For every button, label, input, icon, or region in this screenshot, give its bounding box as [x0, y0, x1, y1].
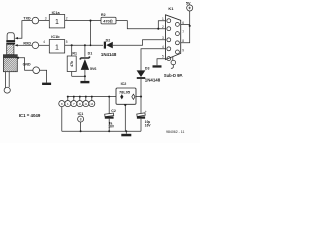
svg-text:5V6: 5V6: [90, 67, 96, 71]
wire stubs to IC1 pin circles: [68, 97, 92, 101]
svg-text:C2: C2: [111, 109, 116, 113]
svg-text:IC1b: IC1b: [51, 35, 60, 39]
svg-text:16V: 16V: [108, 125, 115, 129]
node junction reg right pin: [140, 96, 142, 98]
node rail junctions: [80, 130, 82, 132]
wire RXD to IC1b: [39, 44, 50, 46]
wire GND to jack sleeve: [18, 58, 33, 70]
svg-text:8: 8: [182, 39, 184, 43]
node RXD terminal: [32, 42, 39, 49]
K1 pin numbers left: [162, 17, 164, 59]
jack handle: [3, 55, 17, 72]
arrow to jack sleeve: [16, 57, 19, 59]
svg-text:D2: D2: [106, 39, 111, 43]
resistor R2: [101, 17, 116, 24]
wire junction down to RX line: [90, 21, 92, 46]
capacitor C2: [108, 97, 110, 114]
svg-text:5: 5: [162, 55, 164, 59]
wire K1 pin1 tie to pin2: [158, 21, 165, 29]
jack sleeve: [7, 44, 14, 54]
svg-text:1: 1: [67, 102, 69, 106]
node junction D1 top: [84, 44, 86, 46]
svg-text:3: 3: [162, 36, 164, 40]
wire TXD to IC1a: [39, 20, 50, 22]
capacitor C3: [140, 97, 142, 114]
svg-text:9: 9: [79, 102, 81, 106]
jack plug tip: [7, 33, 14, 40]
jack ring band 2: [6, 43, 15, 45]
wire R1 bottom to D1 bottom: [72, 75, 85, 77]
connector K1 Sub-D body: [166, 15, 181, 60]
jack bail wire: [6, 72, 10, 89]
svg-text:5: 5: [66, 40, 68, 44]
K1 pin holes left column: [167, 19, 171, 23]
ground below GND terminal: [42, 83, 51, 85]
svg-text:1: 1: [55, 19, 59, 26]
svg-text:14: 14: [90, 102, 93, 106]
svg-text:9: 9: [182, 48, 184, 52]
op-amp IC1b inverter box: [49, 40, 64, 53]
wire R2 to K1 pin2: [116, 21, 166, 29]
svg-text:R2: R2: [101, 13, 106, 17]
svg-text:1: 1: [162, 17, 164, 21]
svg-text:47k: 47k: [70, 61, 74, 67]
svg-text:R1: R1: [72, 52, 77, 56]
svg-text:1N4148: 1N4148: [145, 78, 161, 83]
jack ring band 1: [6, 40, 15, 42]
K1 shield stub and circle: [172, 57, 174, 60]
wire K1 pin5 to ground: [157, 59, 166, 66]
svg-text:GND: GND: [23, 63, 31, 67]
svg-text:+: +: [145, 110, 147, 114]
IC1 unused pin numbers: [61, 102, 94, 106]
wire K1 pin4 to D3: [141, 49, 166, 71]
node junction D1 bottom: [84, 75, 86, 77]
ground main: [125, 131, 127, 134]
svg-text:78L05: 78L05: [119, 90, 131, 95]
wire supply bus: [68, 96, 116, 98]
diode D3 1N4148: [137, 70, 146, 77]
wire D2 to K1 pin3: [113, 40, 166, 46]
svg-text:IC1 = 4049: IC1 = 4049: [19, 113, 41, 118]
node junction IC1a out: [89, 20, 91, 22]
svg-text:4: 4: [43, 40, 45, 44]
svg-text:8: 8: [80, 117, 82, 121]
voltage regulator IC2 78L05: [116, 88, 136, 104]
svg-text:IC1a: IC1a: [52, 11, 61, 15]
svg-text:K1: K1: [168, 6, 174, 11]
wire IC1 power pin to rail: [80, 122, 82, 131]
svg-text:984062 - 11: 984062 - 11: [166, 130, 184, 134]
svg-text:4: 4: [162, 45, 164, 49]
wire IC1 pin8 row circle to rail: [61, 107, 63, 132]
arrow to jack tip: [15, 37, 18, 39]
svg-text:2: 2: [162, 25, 164, 29]
svg-text:5V: 5V: [186, 1, 191, 5]
op-amp IC1a inverter box: [49, 15, 64, 28]
node junction 5V pin6: [189, 25, 191, 27]
node junction pin1/pin2: [157, 28, 159, 30]
node bus junctions: [67, 96, 69, 98]
ground below D1: [80, 81, 89, 83]
svg-text:TXD: TXD: [23, 17, 31, 21]
svg-text:7: 7: [182, 30, 184, 34]
arrow to jack ring: [15, 44, 18, 46]
wire RXD to jack ring: [17, 44, 32, 46]
regulator gnd tab: [124, 104, 127, 106]
wire 5V to K1 pins 6 and 8: [181, 11, 190, 43]
node junction R1 top: [71, 44, 73, 46]
diode D2 1N4148: [104, 42, 106, 49]
K1 pin numbers right: [182, 21, 184, 53]
svg-text:IC2: IC2: [121, 82, 127, 86]
node IC1 pin row circles: [59, 101, 65, 107]
wire IC1b to D2: [65, 44, 103, 46]
resistor R1: [71, 45, 73, 56]
wire GND circle to ground: [40, 70, 47, 82]
svg-text:7: 7: [73, 102, 75, 106]
node TXD terminal: [32, 17, 39, 24]
svg-text:16V: 16V: [145, 124, 152, 128]
svg-text:470Ω: 470Ω: [103, 18, 112, 23]
node GND terminal: [33, 67, 40, 74]
wire TXD to jack tip: [17, 21, 32, 39]
node junction vertical on RX line: [90, 44, 92, 46]
svg-text:8: 8: [61, 102, 63, 106]
svg-text:1N4148: 1N4148: [101, 52, 117, 57]
node IC1 power pin circle: [78, 116, 84, 122]
svg-text:3: 3: [45, 17, 47, 21]
5V supply terminal: [187, 5, 193, 11]
svg-text:IC1: IC1: [78, 112, 84, 116]
K1 pin holes right column: [175, 22, 179, 26]
wire ground rail: [62, 130, 141, 132]
svg-text:1: 1: [55, 44, 59, 51]
wire IC1a output: [65, 20, 101, 22]
diode D1 zener: [84, 45, 86, 57]
ground at K1 pin5: [153, 65, 162, 67]
wire regulator output right: [136, 96, 141, 98]
svg-text:D3: D3: [145, 66, 150, 70]
svg-text:2: 2: [66, 17, 68, 21]
svg-text:D1: D1: [88, 51, 93, 55]
svg-text:11: 11: [84, 102, 87, 106]
svg-text:RXD: RXD: [23, 42, 31, 46]
svg-text:Sub-D 9P.: Sub-D 9P.: [164, 73, 183, 78]
svg-text:6: 6: [182, 21, 184, 25]
